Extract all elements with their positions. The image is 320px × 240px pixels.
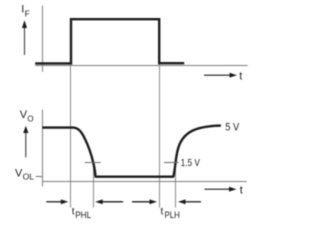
svg-text:1.5 V: 1.5 V — [181, 157, 200, 169]
svg-text:F: F — [25, 8, 30, 18]
t_PHL left arrow (points right) — [46, 199, 68, 204]
t_PLH right arrow (points left) — [178, 199, 201, 204]
top plot horizontal t axis — [35, 65, 248, 67]
arrow V_O axis (up arrow) — [23, 126, 28, 158]
bottom t-axis arrow — [205, 187, 237, 192]
label I_F — [21, 4, 30, 19]
t_PLH left arrow (points right) — [132, 199, 157, 204]
V_OL tick on axis — [36, 176, 43, 178]
svg-text:t: t — [240, 185, 243, 197]
reference line at V_O falling 1.5V crossing — [93, 163, 95, 208]
top plot vertical axis — [42, 6, 44, 72]
tick 1.5V on rising edge — [164, 162, 179, 164]
arrow I_F axis (up arrow) — [22, 20, 27, 55]
label V_O — [20, 109, 34, 123]
label t_PHL — [72, 206, 91, 220]
label t_PLH — [161, 206, 180, 220]
reference line at I_F falling edge — [159, 20, 161, 208]
reference line at V_O rising 1.5V crossing — [175, 163, 177, 208]
svg-text:t: t — [239, 70, 242, 82]
reference line at I_F rising edge — [70, 20, 72, 208]
top t-axis arrow — [204, 73, 237, 78]
bottom plot horizontal t axis — [43, 181, 247, 183]
svg-text:t: t — [161, 206, 164, 217]
svg-text:O: O — [27, 115, 33, 124]
label V_OL — [15, 167, 34, 181]
t_PHL right arrow (points left) — [95, 199, 123, 204]
waveform V_O — [42, 126, 221, 177]
tick 1.5V on falling edge — [85, 162, 101, 164]
svg-text:OL: OL — [23, 171, 35, 181]
waveform I_F pulse — [35, 19, 184, 63]
svg-text:PHL: PHL — [75, 210, 91, 220]
svg-text:PLH: PLH — [165, 210, 180, 220]
svg-text:5 V: 5 V — [225, 122, 240, 134]
bottom plot vertical axis — [42, 110, 44, 187]
